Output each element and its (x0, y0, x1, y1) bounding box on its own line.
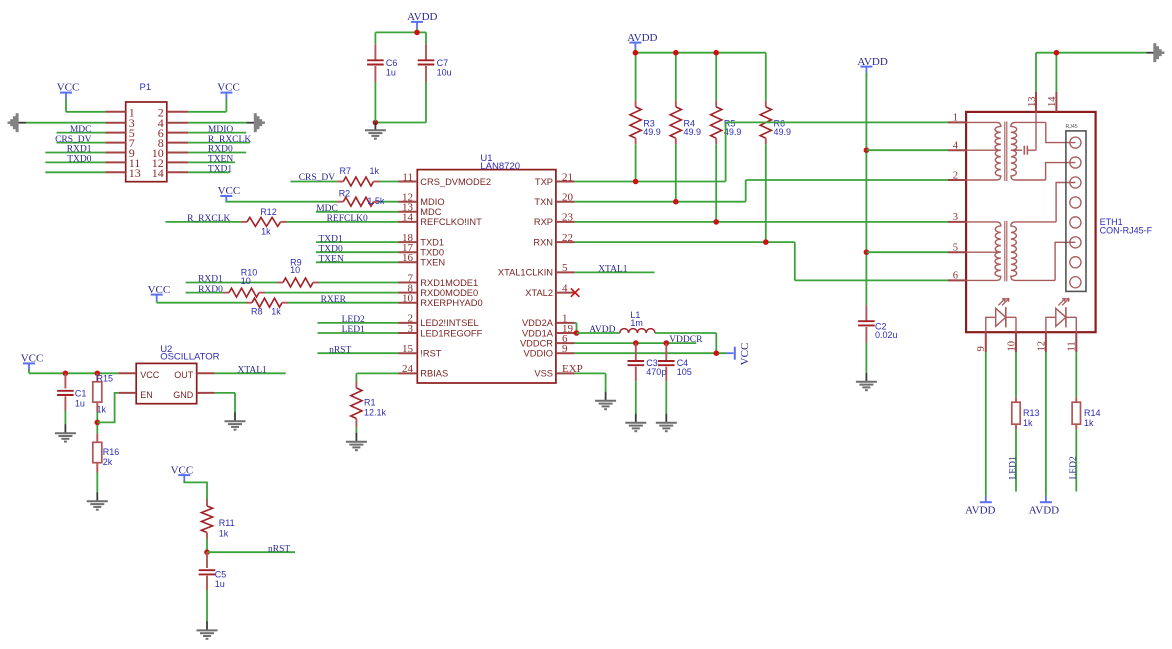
svg-text:OUT: OUT (174, 370, 194, 380)
svg-text:XTAL2: XTAL2 (525, 288, 553, 298)
svg-text:1u: 1u (215, 579, 225, 589)
svg-text:1u: 1u (386, 67, 396, 77)
svg-text:CRS_DV: CRS_DV (299, 173, 336, 183)
svg-text:XTAL1: XTAL1 (598, 265, 628, 275)
svg-text:4: 4 (953, 141, 959, 152)
svg-text:REFCLKO!INT: REFCLKO!INT (420, 217, 482, 227)
svg-text:nRST: nRST (329, 345, 351, 355)
svg-text:4: 4 (562, 282, 568, 294)
svg-text:VCC: VCC (739, 343, 751, 366)
svg-text:VDD2A: VDD2A (522, 318, 554, 328)
svg-text:49.9: 49.9 (724, 127, 742, 137)
svg-text:!RST: !RST (420, 349, 441, 359)
svg-text:AVDD: AVDD (1029, 505, 1059, 517)
svg-text:LED2!INTSEL: LED2!INTSEL (420, 318, 478, 328)
svg-text:AVDD: AVDD (589, 325, 615, 335)
svg-text:LED2: LED2 (342, 315, 365, 325)
svg-text:GND: GND (173, 390, 194, 400)
svg-text:EN: EN (140, 390, 153, 400)
svg-text:AVDD: AVDD (407, 11, 437, 23)
svg-text:R16: R16 (103, 447, 120, 457)
svg-text:R12: R12 (260, 207, 277, 217)
svg-text:1k: 1k (1023, 418, 1033, 428)
svg-text:VCC: VCC (218, 185, 241, 197)
svg-text:CRS_DV: CRS_DV (55, 135, 92, 145)
svg-text:RBIAS: RBIAS (420, 369, 448, 379)
svg-text:LED2: LED2 (1069, 456, 1079, 479)
svg-text:TXD0: TXD0 (420, 248, 444, 258)
svg-text:14: 14 (1047, 96, 1058, 107)
svg-text:P1: P1 (140, 82, 152, 93)
svg-text:0.02u: 0.02u (875, 330, 898, 340)
svg-text:2k: 2k (103, 457, 113, 467)
svg-text:14: 14 (402, 212, 414, 224)
svg-text:9: 9 (562, 343, 568, 355)
svg-text:TXEN: TXEN (319, 255, 344, 265)
svg-text:R14: R14 (1084, 408, 1101, 418)
svg-text:TXN: TXN (534, 197, 553, 207)
svg-text:12: 12 (1036, 341, 1047, 352)
svg-text:R2: R2 (339, 189, 351, 199)
svg-text:RXD1MODE1: RXD1MODE1 (420, 278, 478, 288)
svg-text:CON-RJ45-F: CON-RJ45-F (1100, 226, 1153, 236)
svg-text:RXERPHYAD0: RXERPHYAD0 (420, 298, 482, 308)
svg-text:MDC: MDC (70, 125, 92, 135)
svg-text:RXD0MODE0: RXD0MODE0 (420, 288, 478, 298)
svg-text:3: 3 (408, 323, 414, 335)
svg-text:1.5k: 1.5k (367, 196, 385, 206)
svg-text:TXD1: TXD1 (319, 234, 344, 244)
svg-text:VCC: VCC (57, 81, 80, 93)
svg-text:TXP: TXP (535, 177, 553, 187)
svg-text:TXEN: TXEN (420, 258, 445, 268)
svg-text:XTAL1CLKIN: XTAL1CLKIN (498, 268, 553, 278)
svg-text:2: 2 (953, 170, 958, 181)
svg-text:105: 105 (677, 367, 692, 377)
svg-text:16: 16 (402, 252, 414, 264)
svg-text:VCC: VCC (217, 81, 240, 93)
svg-text:RXD1: RXD1 (198, 275, 223, 285)
svg-text:13: 13 (1027, 97, 1038, 108)
svg-text:1k: 1k (1084, 418, 1094, 428)
svg-text:VDDCR: VDDCR (520, 338, 553, 348)
svg-text:11: 11 (402, 171, 413, 183)
svg-text:1: 1 (953, 113, 958, 124)
svg-text:14: 14 (152, 166, 164, 180)
svg-text:9: 9 (976, 346, 987, 351)
svg-text:22: 22 (562, 232, 573, 244)
svg-text:R11: R11 (219, 518, 235, 528)
svg-text:R15: R15 (97, 373, 114, 383)
svg-text:MDC: MDC (420, 207, 441, 217)
svg-text:20: 20 (562, 192, 574, 204)
svg-text:AVDD: AVDD (965, 505, 995, 517)
svg-text:1u: 1u (75, 399, 85, 409)
svg-text:VCC: VCC (148, 284, 171, 296)
svg-text:21: 21 (562, 171, 573, 183)
svg-text:RXD0: RXD0 (208, 145, 233, 155)
svg-text:1k: 1k (261, 226, 271, 236)
svg-text:VDD1A: VDD1A (522, 328, 554, 338)
svg-text:RXD1: RXD1 (67, 145, 92, 155)
svg-text:TXEN: TXEN (208, 155, 233, 165)
svg-text:VSS: VSS (534, 369, 553, 379)
svg-text:10: 10 (241, 276, 251, 286)
svg-text:R13: R13 (1023, 408, 1040, 418)
svg-text:R1: R1 (364, 398, 376, 408)
svg-text:REFCLK0: REFCLK0 (327, 214, 368, 224)
svg-text:CRS_DVMODE2: CRS_DVMODE2 (420, 177, 491, 187)
svg-text:1m: 1m (630, 318, 643, 328)
svg-text:49.9: 49.9 (684, 127, 702, 137)
svg-text:VDDCR: VDDCR (669, 335, 703, 345)
svg-text:VDDIO: VDDIO (524, 349, 553, 359)
svg-text:VCC: VCC (21, 353, 44, 365)
svg-text:49.9: 49.9 (643, 127, 661, 137)
svg-text:TXD1: TXD1 (420, 237, 444, 247)
svg-text:nRST: nRST (268, 544, 290, 554)
svg-text:15: 15 (402, 343, 414, 355)
svg-text:LED1: LED1 (342, 325, 365, 335)
svg-text:10: 10 (402, 293, 414, 305)
svg-text:MDC: MDC (316, 204, 338, 214)
svg-text:R8: R8 (251, 306, 263, 316)
svg-text:RJ45: RJ45 (1066, 124, 1078, 130)
svg-text:13: 13 (129, 166, 141, 180)
svg-text:5: 5 (562, 262, 568, 274)
svg-text:1k: 1k (370, 166, 380, 176)
svg-text:LAN8720: LAN8720 (480, 161, 520, 172)
svg-text:LED1REGOFF: LED1REGOFF (420, 328, 482, 338)
svg-text:RXN: RXN (533, 237, 553, 247)
svg-text:RXD0: RXD0 (198, 285, 223, 295)
svg-text:23: 23 (562, 212, 574, 224)
svg-text:C1: C1 (75, 388, 87, 398)
svg-text:LED1: LED1 (1009, 456, 1019, 479)
svg-text:10: 10 (290, 265, 300, 275)
svg-text:3: 3 (953, 212, 958, 223)
svg-text:R_RXCLK: R_RXCLK (208, 135, 251, 145)
svg-text:49.9: 49.9 (774, 127, 792, 137)
svg-text:12.1k: 12.1k (364, 408, 387, 418)
svg-text:11: 11 (1067, 341, 1078, 351)
svg-text:MDIO: MDIO (420, 197, 444, 207)
svg-text:RXER: RXER (321, 295, 347, 305)
svg-text:AVDD: AVDD (857, 56, 887, 68)
svg-text:TXD0: TXD0 (319, 244, 344, 254)
svg-text:AVDD: AVDD (627, 32, 657, 44)
svg-text:10: 10 (1006, 341, 1017, 352)
svg-text:R_RXCLK: R_RXCLK (187, 214, 230, 224)
svg-text:R7: R7 (340, 166, 352, 176)
svg-text:RXP: RXP (534, 217, 553, 227)
svg-text:VCC: VCC (171, 464, 194, 476)
svg-text:6: 6 (953, 271, 958, 282)
svg-text:MDIO: MDIO (208, 125, 233, 135)
svg-text:XTAL1: XTAL1 (238, 365, 268, 375)
svg-text:1k: 1k (219, 528, 229, 538)
svg-text:24: 24 (402, 363, 414, 375)
svg-text:10u: 10u (437, 67, 452, 77)
svg-text:OSCILLATOR: OSCILLATOR (160, 351, 219, 362)
svg-text:C5: C5 (215, 570, 227, 580)
svg-text:5: 5 (953, 243, 958, 254)
svg-text:TXD1: TXD1 (208, 165, 233, 175)
svg-text:470p: 470p (646, 367, 666, 377)
svg-text:1k: 1k (271, 306, 281, 316)
svg-text:VCC: VCC (140, 370, 160, 380)
svg-text:TXD0: TXD0 (67, 155, 92, 165)
